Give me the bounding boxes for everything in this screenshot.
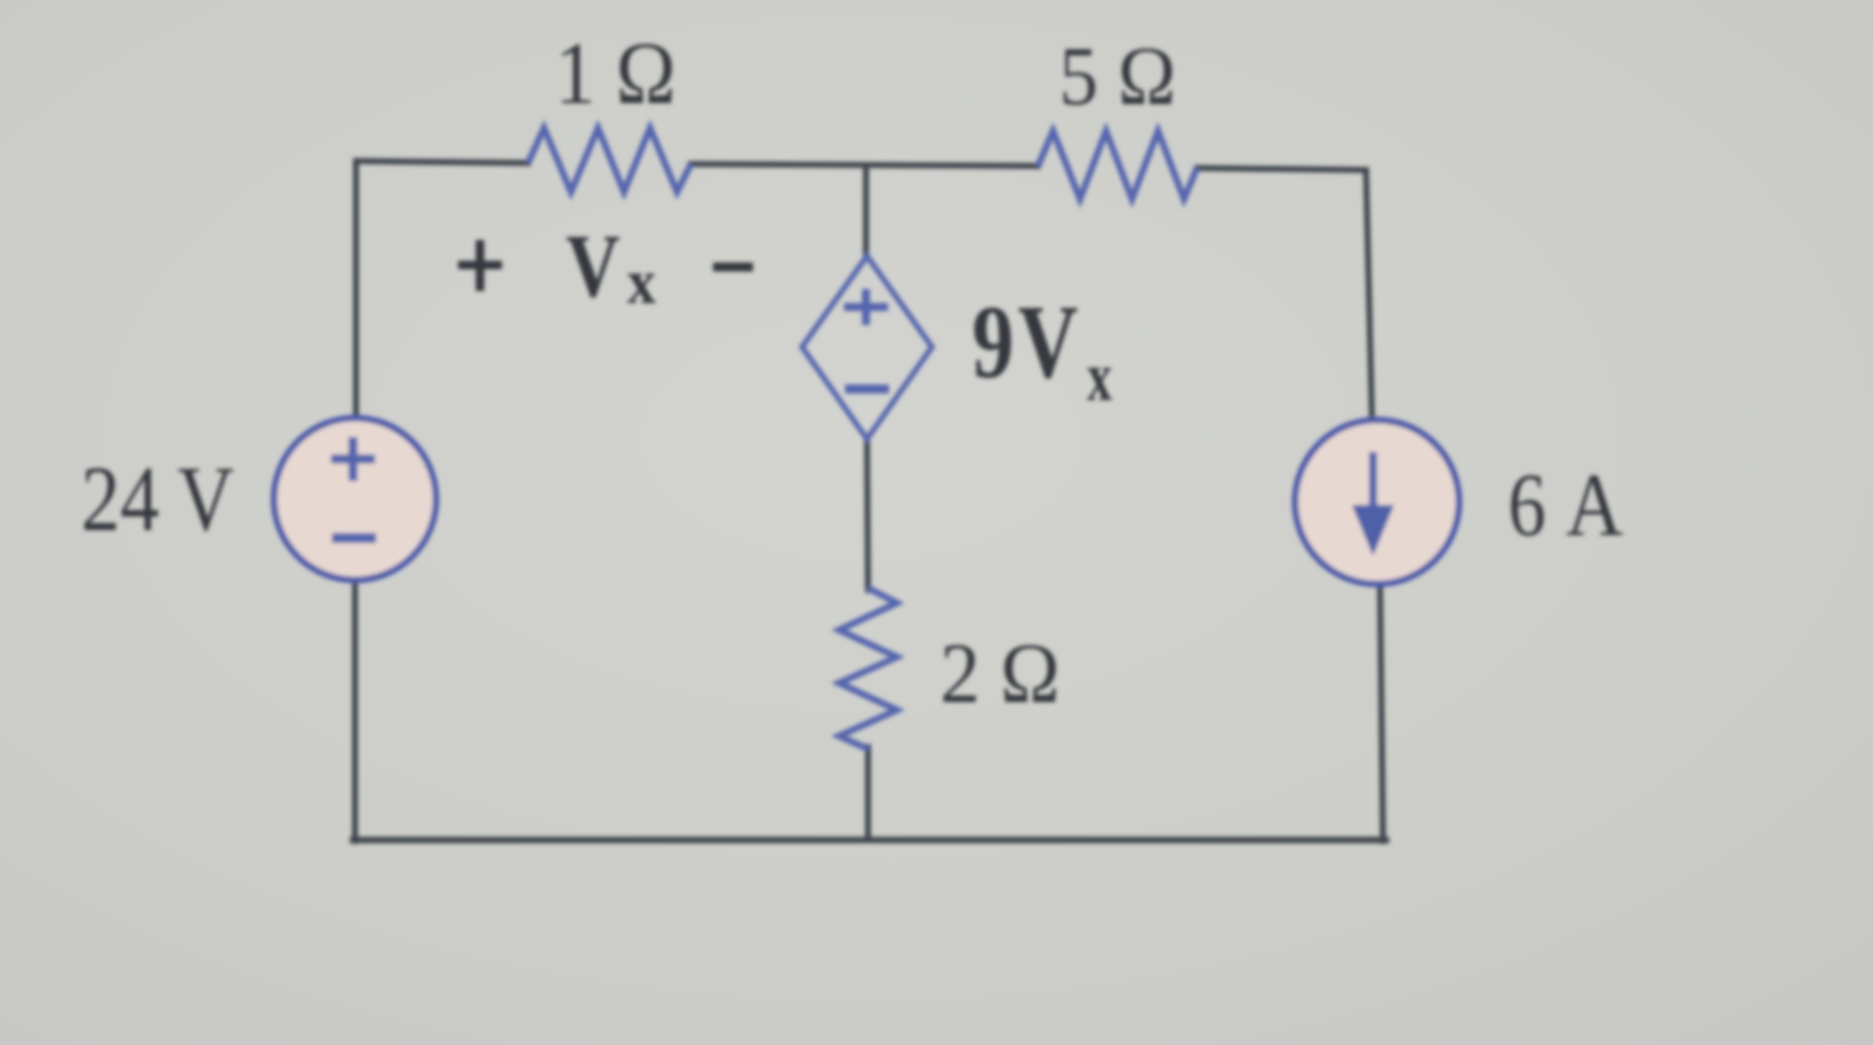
svg-text:5 Ω: 5 Ω: [1059, 30, 1176, 123]
svg-text:9: 9: [972, 283, 1014, 400]
svg-text:2 Ω: 2 Ω: [940, 625, 1060, 721]
svg-text:x: x: [627, 246, 656, 317]
svg-text:x: x: [1087, 339, 1112, 416]
svg-text:V: V: [1018, 283, 1078, 400]
svg-text:6: 6: [1508, 456, 1546, 555]
svg-text:A: A: [1566, 456, 1623, 555]
svg-text:V: V: [566, 217, 620, 316]
svg-text:24 V: 24 V: [81, 448, 234, 551]
svg-text:1 Ω: 1 Ω: [555, 25, 676, 123]
